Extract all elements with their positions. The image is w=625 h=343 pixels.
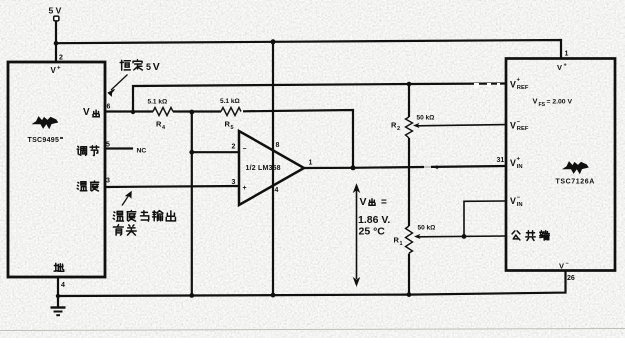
svg-text:IN: IN [517,202,523,208]
node A junction R4/R5 [189,110,194,115]
svg-text:V: V [153,61,160,73]
svg-text:1: 1 [400,241,403,247]
scan artifact line bottom [0,329,625,331]
node: ground stem on rail [56,294,60,298]
svg-text:25 °C: 25 °C [359,226,386,238]
pin VIN+ U2 [510,157,523,170]
svg-text:V: V [510,158,516,168]
wire: node A segment between R4 and R5 [173,110,221,112]
label R2 [391,121,400,133]
svg-text:6: 6 [107,104,111,111]
svg-text:+: + [517,78,521,84]
wire: VIN- jog down to common node [464,201,506,236]
svg-text:4: 4 [275,187,279,194]
arrowhead: R1 wiper [414,234,421,239]
resistor R4 [153,108,173,116]
wire: constant 5V line from VOUT branch to VREF+ [133,84,506,113]
wire: +5V supply drop to U1 pin 2 [55,21,57,62]
svg-text:V: V [83,107,90,118]
svg-text:= 2.00 V: = 2.00 V [547,99,573,106]
wire: R5 to feedback corner down to output node [243,110,353,168]
svg-text:+: + [517,157,521,163]
op-amp U3 triangle 1/2 LM358 [239,131,304,205]
ground symbol [51,308,66,316]
wire: top +5V rail to TSC7126A pin 1 [56,40,561,59]
svg-text:50 kΩ: 50 kΩ [418,225,436,232]
svg-text:−: − [517,195,521,201]
svg-text:5.1 kΩ: 5.1 kΩ [220,98,240,105]
svg-text:V: V [360,196,367,208]
scan artifact gaps on VREF+ wire [424,83,500,169]
svg-text:NC: NC [137,148,147,155]
svg-text:+: + [564,63,567,69]
svg-text:TSC9495: TSC9495 [28,137,60,144]
note 温度与输出 有关 [113,211,175,236]
pin VIN- U2 [510,195,523,208]
svg-text:4: 4 [61,282,65,289]
note VFS = 2.00 V [533,97,573,108]
node: op-amp V- on ground rail [271,293,276,298]
wire: temperature output to pin 3 [105,186,240,187]
potentiometer R1 [406,226,413,253]
svg-text:5: 5 [231,125,234,131]
svg-text:1.86 V.: 1.86 V. [358,214,390,226]
logo U1 [32,116,59,129]
svg-text:TSC7126A: TSC7126A [556,179,595,186]
label R1 [394,236,403,248]
wire: inverting input pin 2 [192,151,240,153]
IC U1 TSC9495 body [8,62,105,277]
svg-text:3: 3 [232,179,236,186]
wire: R1 bottom to ground rail [408,254,410,295]
label V出 pin6 [83,107,99,118]
svg-text:31: 31 [497,157,505,164]
wire: bottom ground rail to TSC7126A pin 26 [58,271,566,297]
label R5 [225,120,234,132]
svg-text:V: V [557,63,562,72]
svg-text:V: V [533,97,538,106]
label 调节 [77,146,99,156]
svg-text:REF: REF [517,126,529,132]
arrowhead: R2 wiper [413,123,420,128]
svg-text:V: V [51,66,57,75]
svg-text:V: V [510,196,516,206]
label 地 [54,263,64,271]
svg-text:8: 8 [276,142,280,149]
node: op-amp V+ tap on top rail [271,39,276,44]
node: blob on VIN+ line [435,166,438,169]
svg-text:FS: FS [539,102,546,108]
wire: divider string R2 R1 vertical [408,84,410,117]
svg-text:2: 2 [397,126,400,132]
svg-text:5.1 kΩ: 5.1 kΩ [148,99,168,106]
wire: op-amp output to VIN+ pin 31 [304,166,506,168]
node: rail junction at supply [54,41,59,46]
svg-text:+: + [57,66,61,72]
node: 5V branch on VOUT wire [131,110,135,114]
svg-text:REF: REF [517,85,529,91]
wire: R1 wiper to COMMON pin [418,235,506,238]
node: R1 bottom on ground rail [407,292,412,297]
svg-text:5 V: 5 V [49,6,62,16]
logo U2 [562,161,589,174]
note V出 = 1.86 V 25°C [358,196,390,238]
node: node line to ground rail [189,293,194,298]
svg-text:−: − [517,120,521,126]
svg-text:3: 3 [106,178,110,185]
node: output feedback junction [351,165,356,170]
resistor R5 [221,108,241,116]
svg-text:V: V [510,80,516,90]
note 恒定 5 V [120,60,160,73]
label V- inside U2 bottom [559,261,569,271]
pin VREF+ U2 [510,78,529,92]
pin 公共端 U2 [512,231,549,241]
terminal +5V [54,16,59,21]
svg-text:5: 5 [146,62,151,72]
label V+ inside U2 top [557,63,567,73]
node: common/VIN- junction [462,234,467,239]
annotation arrow to constant-5V corner [108,75,127,96]
svg-text:26: 26 [567,275,575,282]
svg-text:+: + [243,185,247,192]
wire: node A vertical to ground rail [191,112,193,296]
svg-text:V: V [510,121,516,131]
potentiometer R2 [406,117,413,138]
svg-text:=: = [381,197,387,208]
wire: R2 wiper to VREF- [417,125,506,126]
svg-text:2: 2 [232,144,236,151]
wire: R2 bottom to R1 top [408,138,410,226]
wire: VOUT pin 6 run with R4/R5 to feedback corner [105,110,153,112]
IC U2 TSC7126A body [506,59,615,271]
svg-text:V: V [559,262,564,271]
svg-text:IN: IN [517,164,523,170]
pin VREF- U2 [510,120,529,133]
svg-text:−: − [243,146,247,153]
measurement arrow Vout [354,185,359,286]
wire: op-amp supply line pin 8 / pin 4 [272,42,274,295]
label V+ inside U1 [51,66,62,76]
scan speck near U1 edge [60,137,63,139]
label R4 [156,120,166,132]
node: R2 top on 5V rail [407,82,412,87]
svg-text:1: 1 [309,160,313,167]
wire: U1 ground pin 4 stem [57,277,59,307]
label 温度 pin3 [77,181,99,191]
svg-text:50 kΩ: 50 kΩ [417,115,435,122]
wire: NC stub on pin 5 [105,147,133,149]
svg-text:2: 2 [59,55,63,62]
svg-text:1: 1 [565,51,569,58]
svg-text:1/2 LM358: 1/2 LM358 [246,165,281,172]
annotation arrow to temperature wire [122,192,131,206]
svg-text:5: 5 [106,142,110,149]
svg-text:−: − [566,261,569,267]
node: inverting input tap [189,150,194,155]
